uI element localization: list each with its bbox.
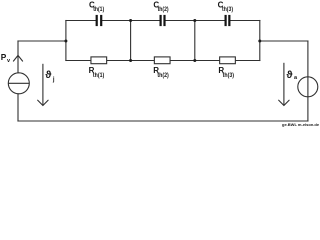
svg-text:ϑ: ϑ xyxy=(45,69,52,81)
resistor R2 body xyxy=(154,57,170,64)
wire: rail 2 xyxy=(130,21,132,61)
junction node rail1/main line xyxy=(64,40,67,43)
wire: right source vertical wire xyxy=(307,41,309,121)
arrow theta_j (junction temperature) shaft xyxy=(42,64,44,105)
wire: left source upper stub xyxy=(17,41,19,73)
wire: top branch segment 3a xyxy=(195,20,225,22)
svg-text:th(1): th(1) xyxy=(93,7,104,13)
current source horizontal bar xyxy=(8,82,29,84)
wire: top branch segment 2b xyxy=(166,20,195,22)
wire: top branch segment 3b xyxy=(230,20,259,22)
wire: left source lower stub xyxy=(17,94,19,121)
wire: rail 3 xyxy=(194,21,196,61)
wire: top branch segment 1b xyxy=(102,20,130,22)
wire: bottom branch segment 1a xyxy=(66,60,91,62)
resistor R1 body xyxy=(91,57,107,64)
svg-text:th(1): th(1) xyxy=(93,73,104,79)
arrow theta_j arrowhead xyxy=(38,100,48,105)
wire: bottom branch segment 1b xyxy=(107,60,130,62)
wire: bottom branch segment 2b xyxy=(170,60,195,62)
junction node rail3 top xyxy=(193,19,196,22)
svg-text:th(2): th(2) xyxy=(158,7,169,13)
capacitor C3 plates xyxy=(225,15,231,26)
current source (power dissipation) circle xyxy=(8,73,29,94)
wire: main node line left (source to rail 1) xyxy=(18,40,66,42)
wire: top branch segment 1a xyxy=(66,20,96,22)
wire: top branch segment 2a xyxy=(131,20,160,22)
wire: rail 1 xyxy=(65,21,67,61)
svg-text:th(3): th(3) xyxy=(222,7,233,13)
wire: main node line right (rail 4 to source) xyxy=(260,40,308,42)
svg-text:ϑ: ϑ xyxy=(286,69,293,81)
svg-text:a: a xyxy=(294,75,298,81)
junction node rail2 bottom xyxy=(129,59,132,62)
wire: bottom branch segment 3b xyxy=(236,60,260,62)
svg-text:j: j xyxy=(52,77,55,83)
svg-text:P: P xyxy=(1,52,7,62)
capacitor C2 plates xyxy=(160,15,166,26)
wire: bottom branch segment 3a xyxy=(195,60,219,62)
voltage source (ambient temperature) circle xyxy=(298,77,318,97)
svg-text:ge.BWL m-elson.de: ge.BWL m-elson.de xyxy=(282,122,320,127)
wire: rail 4 xyxy=(259,21,261,61)
junction node rail4/main line xyxy=(258,40,261,43)
junction node rail3 bottom xyxy=(193,59,196,62)
capacitor C1 plates xyxy=(96,15,103,26)
wire: bottom return line xyxy=(18,120,308,122)
arrow theta_a arrowhead xyxy=(279,100,289,105)
svg-text:th(2): th(2) xyxy=(157,73,168,79)
current source direction arrowhead (up) xyxy=(13,55,22,61)
arrow theta_a (ambient temperature) shaft xyxy=(283,63,285,105)
resistor R3 body xyxy=(220,57,236,64)
svg-text:th(3): th(3) xyxy=(223,73,234,79)
svg-text:v: v xyxy=(7,58,11,64)
junction node rail2 top xyxy=(129,19,132,22)
wire: bottom branch segment 2a xyxy=(131,60,154,62)
